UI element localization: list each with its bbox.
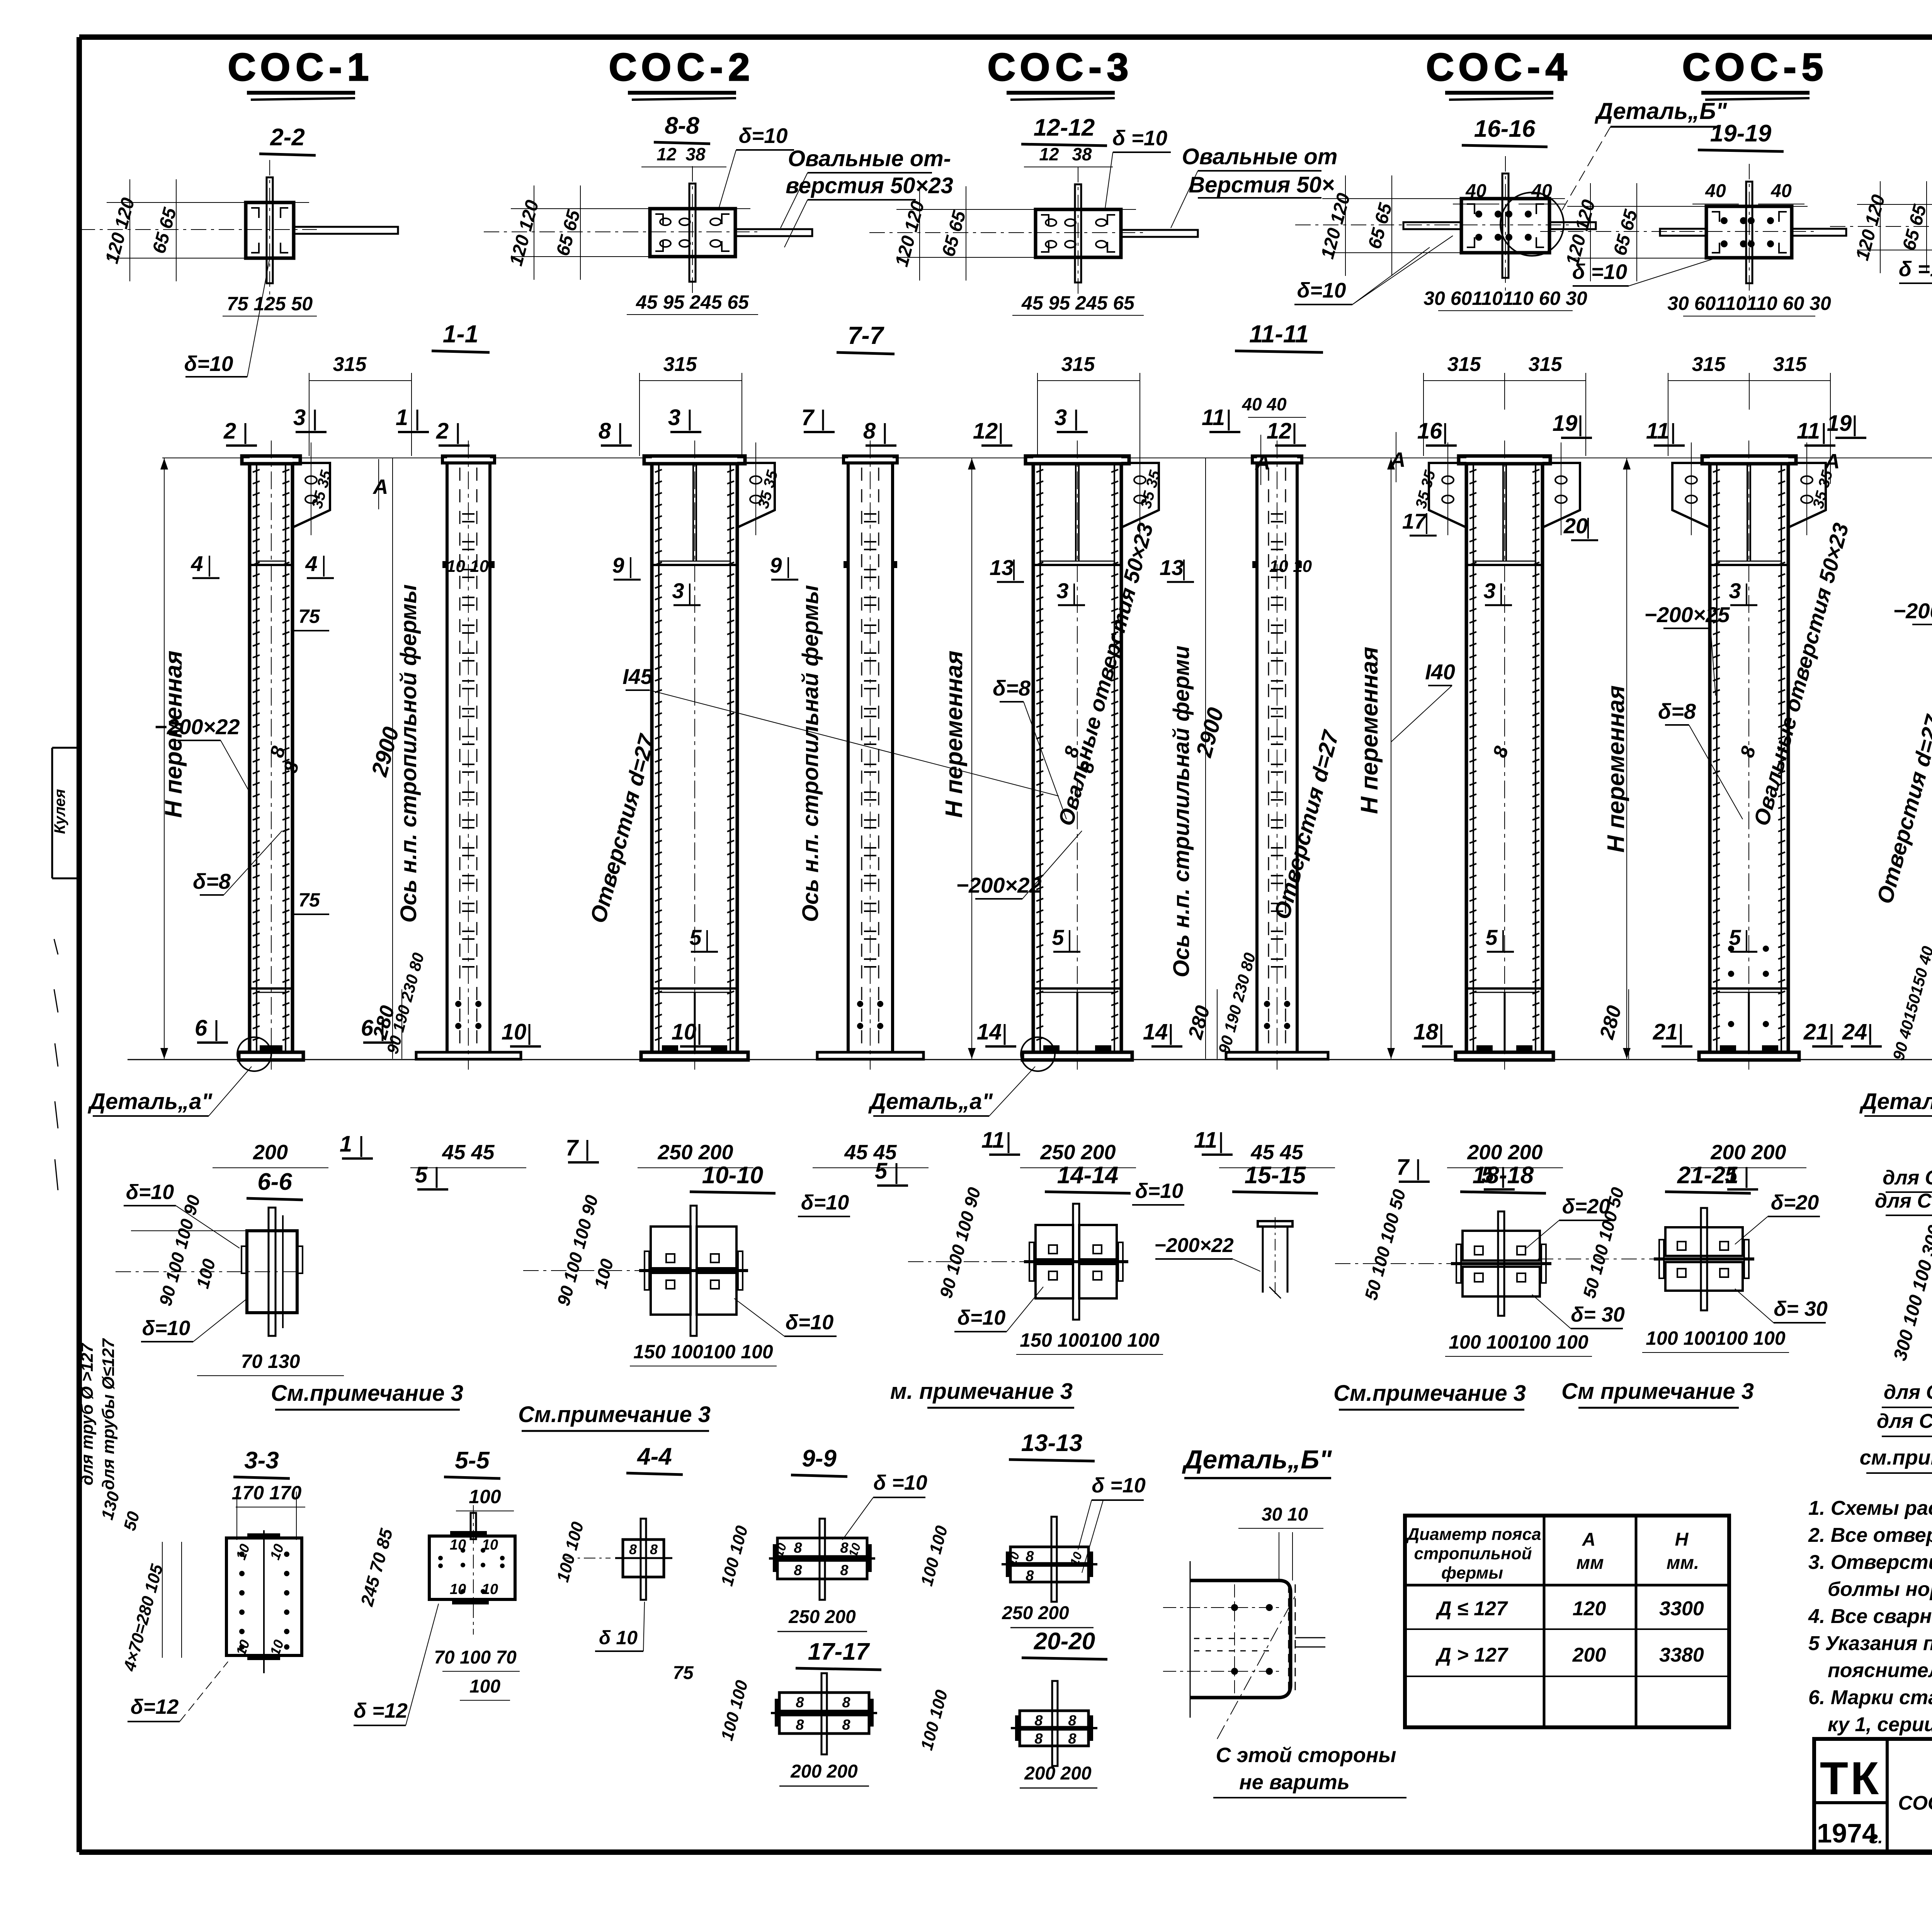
svg-text:7: 7 bbox=[566, 1135, 579, 1160]
svg-text:200 200: 200 200 bbox=[1467, 1141, 1543, 1164]
cut markers above columns bbox=[223, 405, 1932, 446]
svg-text:СОС-5: СОС-5 bbox=[1682, 46, 1829, 89]
svg-text:15-15: 15-15 bbox=[1245, 1162, 1306, 1189]
column СОС-3 side elevation bbox=[1226, 441, 1328, 1070]
section 2-2 delta label bbox=[184, 258, 270, 377]
svg-text:14-14: 14-14 bbox=[1057, 1162, 1119, 1189]
svg-text:для СО −10: для СО −10 bbox=[1884, 1381, 1932, 1404]
svg-text:17: 17 bbox=[1402, 509, 1427, 533]
svg-text:3: 3 bbox=[1056, 578, 1068, 603]
cut markers below columns bbox=[195, 1016, 1932, 1189]
section 8-8 label bbox=[654, 112, 710, 144]
svg-text:СОС-3: СОС-3 bbox=[988, 46, 1134, 89]
svg-text:10: 10 bbox=[482, 1581, 498, 1597]
svg-text:2: 2 bbox=[223, 419, 236, 444]
svg-text:δ=12: δ=12 bbox=[131, 1695, 179, 1718]
svg-text:см.примечание 3: см.примечание 3 bbox=[1860, 1446, 1932, 1469]
section 10-10 bbox=[523, 1206, 748, 1336]
markers inside columns bbox=[672, 578, 1932, 952]
svg-text:19: 19 bbox=[1553, 411, 1578, 436]
svg-text:5: 5 bbox=[1729, 925, 1741, 949]
svg-text:45 95 245 65: 45 95 245 65 bbox=[636, 291, 749, 313]
svg-text:11: 11 bbox=[1194, 1128, 1217, 1153]
dims 40 40 above 19-19 bbox=[1692, 181, 1804, 204]
svg-text:70 130: 70 130 bbox=[241, 1351, 300, 1372]
svg-text:δ=10: δ=10 bbox=[957, 1306, 1006, 1329]
svg-text:3: 3 bbox=[668, 405, 680, 430]
section 23-23 delta label bbox=[1899, 251, 1932, 283]
svg-text:А: А bbox=[1582, 1529, 1596, 1550]
svg-text:−200×22: −200×22 bbox=[1893, 599, 1932, 623]
detail a callouts bbox=[87, 1067, 1932, 1116]
svg-text:100 100100 100: 100 100100 100 bbox=[1449, 1331, 1588, 1353]
svg-text:Кулея: Кулея bbox=[51, 789, 68, 834]
section 18-18 label bbox=[1460, 1162, 1546, 1193]
svg-text:1: 1 bbox=[396, 405, 408, 430]
title СОС-4 bbox=[1426, 46, 1573, 100]
section 13-13 bbox=[1002, 1517, 1097, 1602]
svg-text:70 100 70: 70 100 70 bbox=[434, 1647, 517, 1668]
svg-text:45 95 245 65: 45 95 245 65 bbox=[1021, 292, 1135, 314]
table diameter/A/H bbox=[1405, 1516, 1729, 1727]
18-18 note bbox=[1333, 1381, 1526, 1410]
svg-text:18: 18 bbox=[1413, 1019, 1439, 1045]
4-4 delta bbox=[595, 1602, 645, 1651]
svg-text:3. Отверстия в опорных плитах: 3. Отверстия в опорных плитах стоек d = … bbox=[1808, 1551, 1932, 1574]
svg-text:13: 13 bbox=[1160, 555, 1184, 580]
detail B callout bbox=[1561, 98, 1728, 212]
21-21 note bbox=[1561, 1379, 1754, 1408]
section 14-14 label bbox=[1045, 1162, 1131, 1193]
13-13 left dims bbox=[917, 1524, 952, 1588]
15-15 callout -200x22 bbox=[1154, 1234, 1260, 1271]
svg-text:для труб Ø >127: для труб Ø >127 bbox=[78, 1342, 97, 1485]
svg-text:Деталь„а": Деталь„а" bbox=[868, 1089, 993, 1114]
section 20-20 bbox=[1011, 1681, 1097, 1766]
svg-text:8-8: 8-8 bbox=[665, 112, 699, 139]
title СОС-1 bbox=[228, 46, 374, 100]
svg-text:верстия 50×23: верстия 50×23 bbox=[786, 173, 953, 198]
3-3 rotated dims bbox=[98, 1489, 182, 1674]
svg-text:12: 12 bbox=[1039, 144, 1059, 164]
svg-text:5: 5 bbox=[1485, 925, 1498, 949]
svg-text:3: 3 bbox=[1483, 578, 1495, 603]
section 9-9 label bbox=[791, 1445, 847, 1477]
column СОС-2 side elevation bbox=[817, 441, 923, 1070]
svg-text:45 45: 45 45 bbox=[442, 1141, 495, 1164]
svg-text:200: 200 bbox=[253, 1141, 288, 1164]
section 10-10 label bbox=[690, 1162, 776, 1193]
section 17-17 bbox=[771, 1673, 877, 1754]
svg-text:δ=10: δ=10 bbox=[1297, 278, 1346, 302]
svg-text:24: 24 bbox=[1842, 1019, 1867, 1045]
svg-text:10 10: 10 10 bbox=[446, 557, 489, 576]
svg-text:Деталь„а": Деталь„а" bbox=[1859, 1089, 1932, 1114]
section 19-19 delta label bbox=[1572, 258, 1716, 286]
svg-text:11-11: 11-11 bbox=[1249, 320, 1309, 348]
dims 315 above columns bbox=[309, 353, 1932, 456]
svg-text:δ=10: δ=10 bbox=[184, 352, 233, 376]
column СОС-1 side elevation bbox=[416, 441, 521, 1070]
svg-text:δ=10: δ=10 bbox=[126, 1181, 174, 1204]
bolt groups near column bases bbox=[1728, 946, 1932, 1027]
view label 1-1 bbox=[432, 320, 490, 352]
A level dims bbox=[308, 432, 1932, 510]
svg-text:9: 9 bbox=[612, 553, 624, 577]
svg-text:8: 8 bbox=[1026, 1548, 1034, 1565]
svg-text:8: 8 bbox=[1034, 1713, 1043, 1729]
svg-text:δ=10: δ=10 bbox=[786, 1311, 834, 1334]
21-21 delta bottom bbox=[1735, 1289, 1828, 1323]
svg-text:20-20: 20-20 bbox=[1034, 1628, 1095, 1655]
13-13 below dims bbox=[1002, 1603, 1094, 1628]
9-9 left dims bbox=[718, 1524, 752, 1588]
svg-text:4. Все сварные швы h= 6, кроме: 4. Все сварные швы h= 6, кроме оговоренн… bbox=[1808, 1605, 1932, 1628]
section 23-23 plan view bbox=[1830, 162, 1932, 308]
svg-text:8: 8 bbox=[794, 1540, 802, 1556]
svg-text:Ось н.п. стропильной фермы: Ось н.п. стропильной фермы bbox=[396, 584, 421, 922]
svg-text:6: 6 bbox=[361, 1016, 374, 1041]
left margin box bbox=[51, 748, 79, 1190]
section 16-16 delta label bbox=[1294, 236, 1453, 305]
3-3 delta bbox=[128, 1662, 228, 1722]
svg-text:12: 12 bbox=[973, 419, 998, 444]
svg-text:8: 8 bbox=[796, 1694, 804, 1711]
17-17 rotated dims bbox=[718, 1678, 752, 1743]
section 3-3 label bbox=[233, 1447, 290, 1478]
svg-text:150 100100 100: 150 100100 100 bbox=[1020, 1329, 1160, 1351]
svg-text:5: 5 bbox=[689, 925, 702, 949]
svg-text:−200×22: −200×22 bbox=[1154, 1234, 1233, 1257]
18-18 delta top bbox=[1526, 1195, 1611, 1248]
svg-text:Н переменная: Н переменная bbox=[1356, 647, 1383, 814]
svg-text:8: 8 bbox=[842, 1694, 850, 1711]
section 4-4 bbox=[562, 1519, 672, 1600]
column СОС-1 front elevation bbox=[237, 441, 330, 1071]
svg-text:10: 10 bbox=[482, 1537, 498, 1553]
svg-text:5-5: 5-5 bbox=[455, 1447, 490, 1474]
svg-text:30 60110110 60 30: 30 60110110 60 30 bbox=[1423, 288, 1587, 309]
10-10 below dims bbox=[630, 1341, 777, 1366]
svg-text:20: 20 bbox=[1563, 514, 1588, 538]
svg-text:м. примечание 3: м. примечание 3 bbox=[890, 1379, 1073, 1404]
svg-text:δ=8: δ=8 bbox=[193, 869, 231, 893]
svg-text:1974: 1974 bbox=[1817, 1818, 1877, 1848]
svg-text:8: 8 bbox=[599, 419, 611, 444]
svg-text:6-6: 6-6 bbox=[257, 1169, 292, 1195]
svg-text:δ 10: δ 10 bbox=[599, 1627, 638, 1649]
notes text bbox=[1808, 1497, 1932, 1736]
svg-text:14: 14 bbox=[1143, 1019, 1168, 1045]
svg-text:δ= 30: δ= 30 bbox=[1774, 1297, 1828, 1320]
title СОС-3 bbox=[988, 46, 1134, 100]
svg-text:100 100100 100: 100 100100 100 bbox=[1646, 1327, 1786, 1349]
svg-text:А: А bbox=[1824, 450, 1840, 473]
svg-text:8: 8 bbox=[1068, 1731, 1077, 1747]
svg-text:δ=10: δ=10 bbox=[801, 1191, 849, 1214]
svg-text:8: 8 bbox=[1068, 1713, 1077, 1729]
title block bbox=[1814, 1739, 1932, 1853]
svg-text:г.: г. bbox=[1869, 1828, 1883, 1847]
svg-text:См примечание 3: См примечание 3 bbox=[1561, 1379, 1754, 1404]
svg-text:75 125 50: 75 125 50 bbox=[227, 293, 313, 315]
section 3-3 bbox=[226, 1530, 302, 1673]
svg-text:45 45: 45 45 bbox=[844, 1141, 897, 1164]
svg-text:5: 5 bbox=[1052, 925, 1064, 949]
svg-text:δ =10: δ =10 bbox=[1112, 126, 1168, 150]
10-10 delta top bbox=[798, 1191, 850, 1216]
section 9-9 bbox=[769, 1519, 875, 1600]
svg-text:для трубы Ø≤127: для трубы Ø≤127 bbox=[99, 1338, 118, 1490]
svg-text:3-3: 3-3 bbox=[244, 1447, 279, 1474]
svg-text:Д ≤ 127: Д ≤ 127 bbox=[1435, 1597, 1508, 1620]
18-18 rotated dims bbox=[1361, 1187, 1409, 1302]
svg-text:38: 38 bbox=[685, 144, 706, 164]
svg-text:Д > 127: Д > 127 bbox=[1435, 1644, 1509, 1666]
svg-text:200: 200 bbox=[1572, 1644, 1606, 1666]
section 2-2 label bbox=[259, 124, 316, 155]
5-5 left dims bbox=[357, 1526, 397, 1608]
svg-text:8: 8 bbox=[629, 1541, 637, 1557]
svg-text:См.примечание 3: См.примечание 3 bbox=[518, 1402, 711, 1427]
svg-text:150 100100 100: 150 100100 100 bbox=[633, 1341, 773, 1363]
detail B top dims bbox=[1238, 1504, 1323, 1528]
svg-text:−200×25: −200×25 bbox=[1644, 602, 1730, 627]
svg-text:14: 14 bbox=[977, 1019, 1002, 1045]
svg-text:16-16: 16-16 bbox=[1474, 116, 1536, 142]
svg-text:12: 12 bbox=[1267, 419, 1292, 444]
svg-text:Овальные от: Овальные от bbox=[1182, 144, 1338, 169]
plate size callouts bbox=[154, 557, 1932, 925]
svg-text:фермы: фермы bbox=[1441, 1563, 1503, 1582]
6-6 rotated dims bbox=[155, 1193, 219, 1308]
svg-text:21: 21 bbox=[1803, 1019, 1829, 1045]
svg-text:75: 75 bbox=[298, 889, 320, 911]
svg-text:30 10: 30 10 bbox=[1262, 1504, 1308, 1525]
svg-text:30 60110110 60 30: 30 60110110 60 30 bbox=[1667, 293, 1831, 314]
4-4 rotated dims bbox=[553, 1520, 588, 1584]
svg-text:−200×22: −200×22 bbox=[956, 873, 1041, 897]
column СОС-5 front elevation bbox=[1672, 441, 1826, 1070]
svg-text:мм: мм bbox=[1576, 1553, 1604, 1573]
margin vertical notes bbox=[78, 1338, 118, 1490]
svg-text:8: 8 bbox=[1026, 1568, 1034, 1584]
svg-text:δ =10: δ =10 bbox=[1572, 260, 1628, 284]
svg-text:3: 3 bbox=[672, 578, 684, 603]
svg-text:Диаметр пояса: Диаметр пояса bbox=[1406, 1525, 1541, 1544]
svg-text:6: 6 bbox=[195, 1016, 207, 1041]
svg-text:8: 8 bbox=[796, 1717, 804, 1733]
svg-text:8: 8 bbox=[1034, 1731, 1043, 1747]
svg-text:мм.: мм. bbox=[1667, 1553, 1699, 1573]
svg-text:315: 315 bbox=[663, 353, 697, 376]
svg-text:δ =10: δ =10 bbox=[1092, 1474, 1146, 1497]
svg-text:19-19: 19-19 bbox=[1710, 120, 1772, 147]
svg-text:19: 19 bbox=[1827, 411, 1852, 436]
svg-text:11: 11 bbox=[1202, 405, 1225, 430]
dims 40 40 above side view 11-11 bbox=[1242, 394, 1306, 417]
svg-text:75: 75 bbox=[298, 606, 320, 627]
svg-text:3: 3 bbox=[1729, 578, 1741, 603]
section 21-21 label bbox=[1665, 1162, 1751, 1193]
dims under columns bbox=[213, 1097, 1932, 1168]
section 13-13 label bbox=[1009, 1430, 1095, 1461]
svg-text:250 200: 250 200 bbox=[657, 1141, 733, 1164]
svg-text:9-9: 9-9 bbox=[802, 1445, 837, 1472]
svg-text:δ= 30: δ= 30 bbox=[1571, 1303, 1625, 1326]
section 6-6 label bbox=[247, 1169, 303, 1200]
svg-text:10: 10 bbox=[450, 1537, 466, 1553]
17-17 below dims bbox=[779, 1761, 869, 1786]
svg-text:2-2: 2-2 bbox=[270, 124, 305, 151]
svg-text:315: 315 bbox=[1773, 353, 1807, 376]
section 19-19 label bbox=[1698, 120, 1784, 151]
svg-text:δ=10: δ=10 bbox=[1135, 1179, 1184, 1203]
svg-text:315: 315 bbox=[1529, 353, 1563, 376]
svg-text:6. Марки стали указаны в: 6. Марки стали указаны в разделе VI пояс… bbox=[1808, 1686, 1932, 1709]
svg-text:2: 2 bbox=[436, 419, 449, 444]
svg-text:Овальные от-: Овальные от- bbox=[788, 146, 951, 171]
svg-text:11: 11 bbox=[981, 1128, 1005, 1153]
svg-text:С этой стороны: С этой стороны bbox=[1216, 1744, 1396, 1767]
svg-text:12-12: 12-12 bbox=[1034, 114, 1095, 141]
dims 12 38 above 12-12 bbox=[1024, 144, 1113, 167]
svg-text:Ось н.п. стропильнай фермы: Ось н.п. стропильнай фермы bbox=[798, 585, 823, 922]
svg-text:Ось н.п. стрилильнай ферми: Ось н.п. стрилильнай ферми bbox=[1169, 646, 1194, 978]
svg-text:СОС-1: СОС-1 bbox=[228, 46, 374, 89]
13-13 delta bbox=[1078, 1474, 1146, 1573]
svg-text:1. Схемы расположения и сорта: 1. Схемы расположения и сортамент опорны… bbox=[1808, 1497, 1932, 1519]
svg-text:18-18: 18-18 bbox=[1473, 1162, 1534, 1189]
svg-text:δ=8: δ=8 bbox=[1658, 699, 1696, 723]
6-6 deltas bbox=[124, 1181, 247, 1342]
svg-text:болты нормальной точности: болты нормальной точности М20 bbox=[1828, 1578, 1932, 1601]
18-18 below dims bbox=[1445, 1331, 1592, 1356]
svg-text:3: 3 bbox=[293, 405, 306, 430]
svg-text:250 200: 250 200 bbox=[1040, 1141, 1116, 1164]
ground line at column bases bbox=[128, 1059, 1932, 1060]
section 8-8 delta label bbox=[719, 124, 794, 209]
svg-text:δ=8: δ=8 bbox=[993, 676, 1031, 700]
oval holes note 2 bbox=[1171, 144, 1337, 228]
svg-text:Н переменная: Н переменная bbox=[941, 651, 968, 818]
svg-text:Деталь„Б": Деталь„Б" bbox=[1594, 98, 1728, 124]
svg-text:10: 10 bbox=[672, 1019, 697, 1045]
24-24 bottom notes bbox=[1860, 1381, 1932, 1473]
svg-text:13-13: 13-13 bbox=[1021, 1430, 1083, 1456]
svg-text:ТК: ТК bbox=[1820, 1752, 1881, 1804]
svg-text:315: 315 bbox=[1061, 353, 1095, 376]
3-3 top dims bbox=[232, 1482, 305, 1540]
svg-text:5 Указания по назначению: 5 Указания по назначению типов электродо… bbox=[1808, 1632, 1932, 1655]
svg-text:Деталь„а": Деталь„а" bbox=[87, 1089, 213, 1114]
svg-text:45 45: 45 45 bbox=[1250, 1141, 1303, 1164]
svg-text:12: 12 bbox=[656, 144, 677, 164]
svg-text:250 200: 250 200 bbox=[788, 1607, 856, 1627]
svg-text:для СО −11: для СО −11 bbox=[1875, 1190, 1932, 1212]
14-14 below dims bbox=[1016, 1329, 1163, 1354]
svg-text:3: 3 bbox=[1054, 405, 1067, 430]
svg-text:пояснительной записки к выпу: пояснительной записки к выпуску 1, серии… bbox=[1828, 1659, 1932, 1682]
section 17-17 label bbox=[796, 1638, 881, 1670]
svg-text:7: 7 bbox=[801, 405, 815, 430]
svg-text:стропильной: стропильной bbox=[1414, 1544, 1532, 1563]
section 8-8 plan view bbox=[484, 166, 812, 315]
column СОС-4 front elevation bbox=[1429, 441, 1580, 1070]
svg-text:7-7: 7-7 bbox=[848, 322, 885, 349]
svg-text:Деталь„Б": Деталь„Б" bbox=[1182, 1445, 1332, 1474]
svg-text:δ =10: δ =10 bbox=[873, 1471, 927, 1494]
vertical dimension arrows bbox=[160, 458, 1932, 1059]
9-9 delta bbox=[842, 1471, 927, 1540]
svg-text:11: 11 bbox=[1646, 419, 1669, 444]
svg-text:8: 8 bbox=[842, 1717, 850, 1733]
svg-text:21-21: 21-21 bbox=[1677, 1162, 1739, 1189]
svg-text:3300: 3300 bbox=[1659, 1597, 1704, 1620]
dims 40 40 above 16-16 bbox=[1453, 181, 1565, 204]
svg-text:для СО −11: для СО −11 bbox=[1877, 1410, 1932, 1432]
svg-text:А: А bbox=[1255, 451, 1270, 474]
detail B drawing bbox=[1163, 1532, 1325, 1739]
svg-text:8: 8 bbox=[863, 419, 876, 444]
14-14 deltas bbox=[954, 1287, 1043, 1332]
svg-text:4: 4 bbox=[305, 551, 317, 576]
oval holes note 1 bbox=[781, 146, 953, 247]
svg-text:δ=10: δ=10 bbox=[142, 1317, 190, 1340]
detail B title bbox=[1182, 1445, 1332, 1478]
vertical dimension texts bbox=[160, 521, 1932, 978]
svg-text:13: 13 bbox=[990, 555, 1014, 580]
section 2-2 plan view bbox=[80, 160, 398, 316]
view label 7-7 bbox=[837, 322, 895, 354]
svg-text:Н: Н bbox=[1675, 1529, 1689, 1550]
svg-text:21: 21 bbox=[1653, 1019, 1678, 1045]
svg-text:−200×22: −200×22 bbox=[154, 715, 240, 739]
section 4-4 label bbox=[626, 1443, 683, 1475]
svg-text:δ =10: δ =10 bbox=[1899, 257, 1932, 281]
svg-text:δ=20: δ=20 bbox=[1771, 1191, 1819, 1214]
svg-text:4: 4 bbox=[190, 551, 203, 576]
svg-text:5: 5 bbox=[875, 1159, 888, 1184]
svg-text:9: 9 bbox=[770, 553, 782, 577]
section 12-12 plan view bbox=[869, 167, 1198, 315]
section 12-12 label bbox=[1021, 114, 1107, 146]
svg-text:40: 40 bbox=[1770, 181, 1792, 201]
svg-text:2. Все отверстия d= 23 под б: 2. Все отверстия d= 23 под болты нормаль… bbox=[1808, 1524, 1932, 1546]
svg-text:не варить: не варить bbox=[1239, 1771, 1350, 1794]
svg-text:А: А bbox=[372, 475, 388, 498]
svg-text:δ =12: δ =12 bbox=[354, 1699, 408, 1722]
svg-text:СОС-1; СОС-2 ; СОС-3 ; СОС-4;: СОС-1; СОС-2 ; СОС-3 ; СОС-4; СОС-5; СО … bbox=[1898, 1792, 1932, 1814]
21-21 below dims bbox=[1642, 1327, 1789, 1352]
top level chain line bbox=[162, 458, 1932, 458]
9-9 below dims bbox=[777, 1607, 867, 1631]
svg-text:8: 8 bbox=[650, 1541, 658, 1557]
svg-text:11: 11 bbox=[1797, 419, 1820, 444]
svg-text:1: 1 bbox=[340, 1131, 352, 1157]
svg-text:40 40: 40 40 bbox=[1242, 394, 1287, 414]
svg-text:См.примечание 3: См.примечание 3 bbox=[271, 1381, 463, 1406]
svg-text:200 200: 200 200 bbox=[790, 1761, 858, 1782]
view label 11-11 bbox=[1235, 320, 1323, 352]
section 14-14 bbox=[908, 1204, 1128, 1320]
svg-text:16: 16 bbox=[1417, 419, 1442, 444]
20-20 below dims bbox=[1020, 1763, 1097, 1788]
detail B circle on 16-16 bbox=[1500, 192, 1564, 256]
svg-text:8: 8 bbox=[840, 1562, 849, 1579]
svg-text:δ=10: δ=10 bbox=[739, 124, 788, 148]
10-10 rotated dims bbox=[553, 1193, 617, 1308]
